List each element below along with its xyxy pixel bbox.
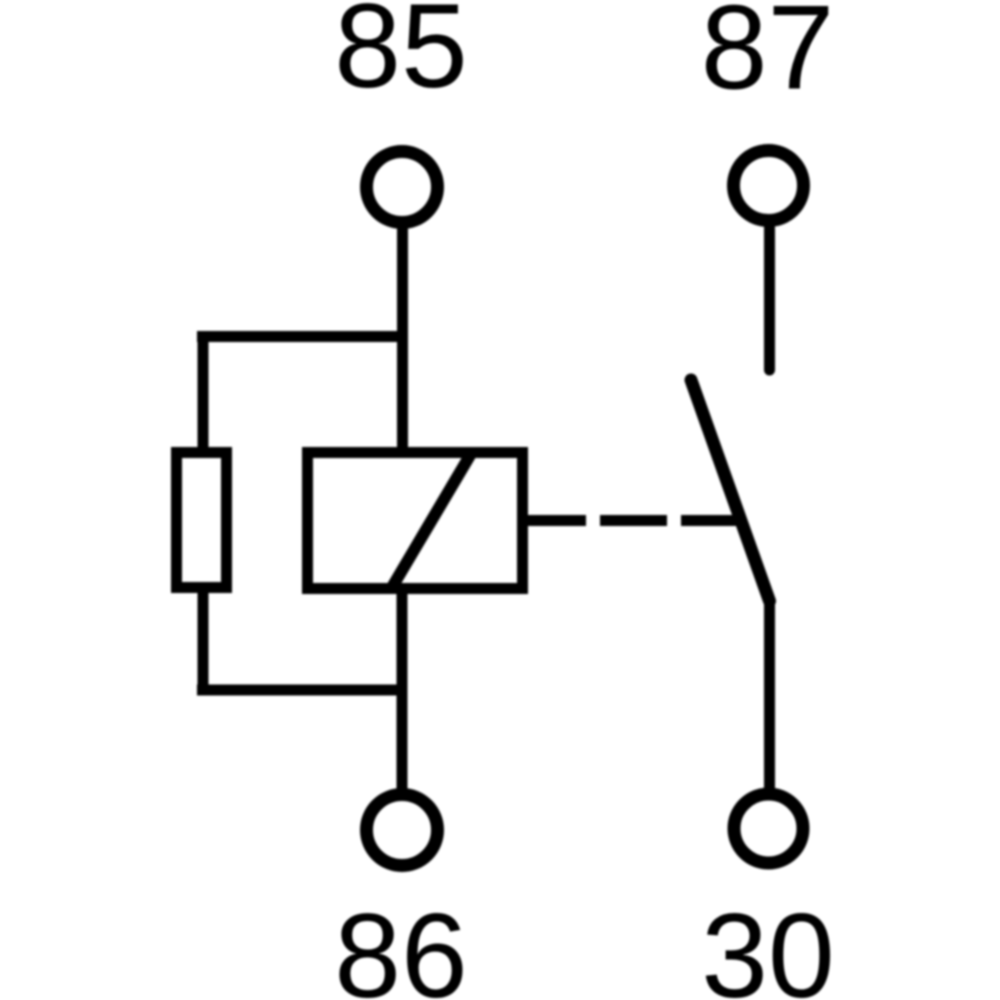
svg-text:85: 85	[334, 0, 467, 113]
relay coil K diagonal	[391, 452, 472, 589]
switch contact lever (normally open)	[691, 380, 770, 601]
wire resistor branch bottom horizontal	[197, 685, 402, 696]
terminal circle 30	[734, 794, 803, 863]
svg-text:86: 86	[334, 889, 467, 1000]
terminal circle 86	[367, 795, 438, 866]
wire terminal 87 down	[764, 228, 775, 370]
wire terminal 85 to coil top	[397, 225, 408, 452]
wire coil bottom to terminal 86	[397, 589, 408, 791]
wire resistor branch left upper vertical	[198, 331, 209, 452]
actuation dashed link coil to contact	[528, 515, 738, 526]
wire resistor branch left lower vertical	[198, 588, 209, 695]
svg-text:30: 30	[701, 889, 834, 1000]
relay coil K box	[308, 453, 523, 589]
svg-text:87: 87	[701, 0, 834, 115]
resistor R (parallel to coil)	[177, 453, 227, 588]
wire switch bottom to terminal 30	[764, 598, 775, 791]
terminal circle 87	[734, 151, 804, 221]
terminal circle 85	[367, 152, 438, 223]
wire resistor branch top horizontal	[197, 331, 403, 342]
